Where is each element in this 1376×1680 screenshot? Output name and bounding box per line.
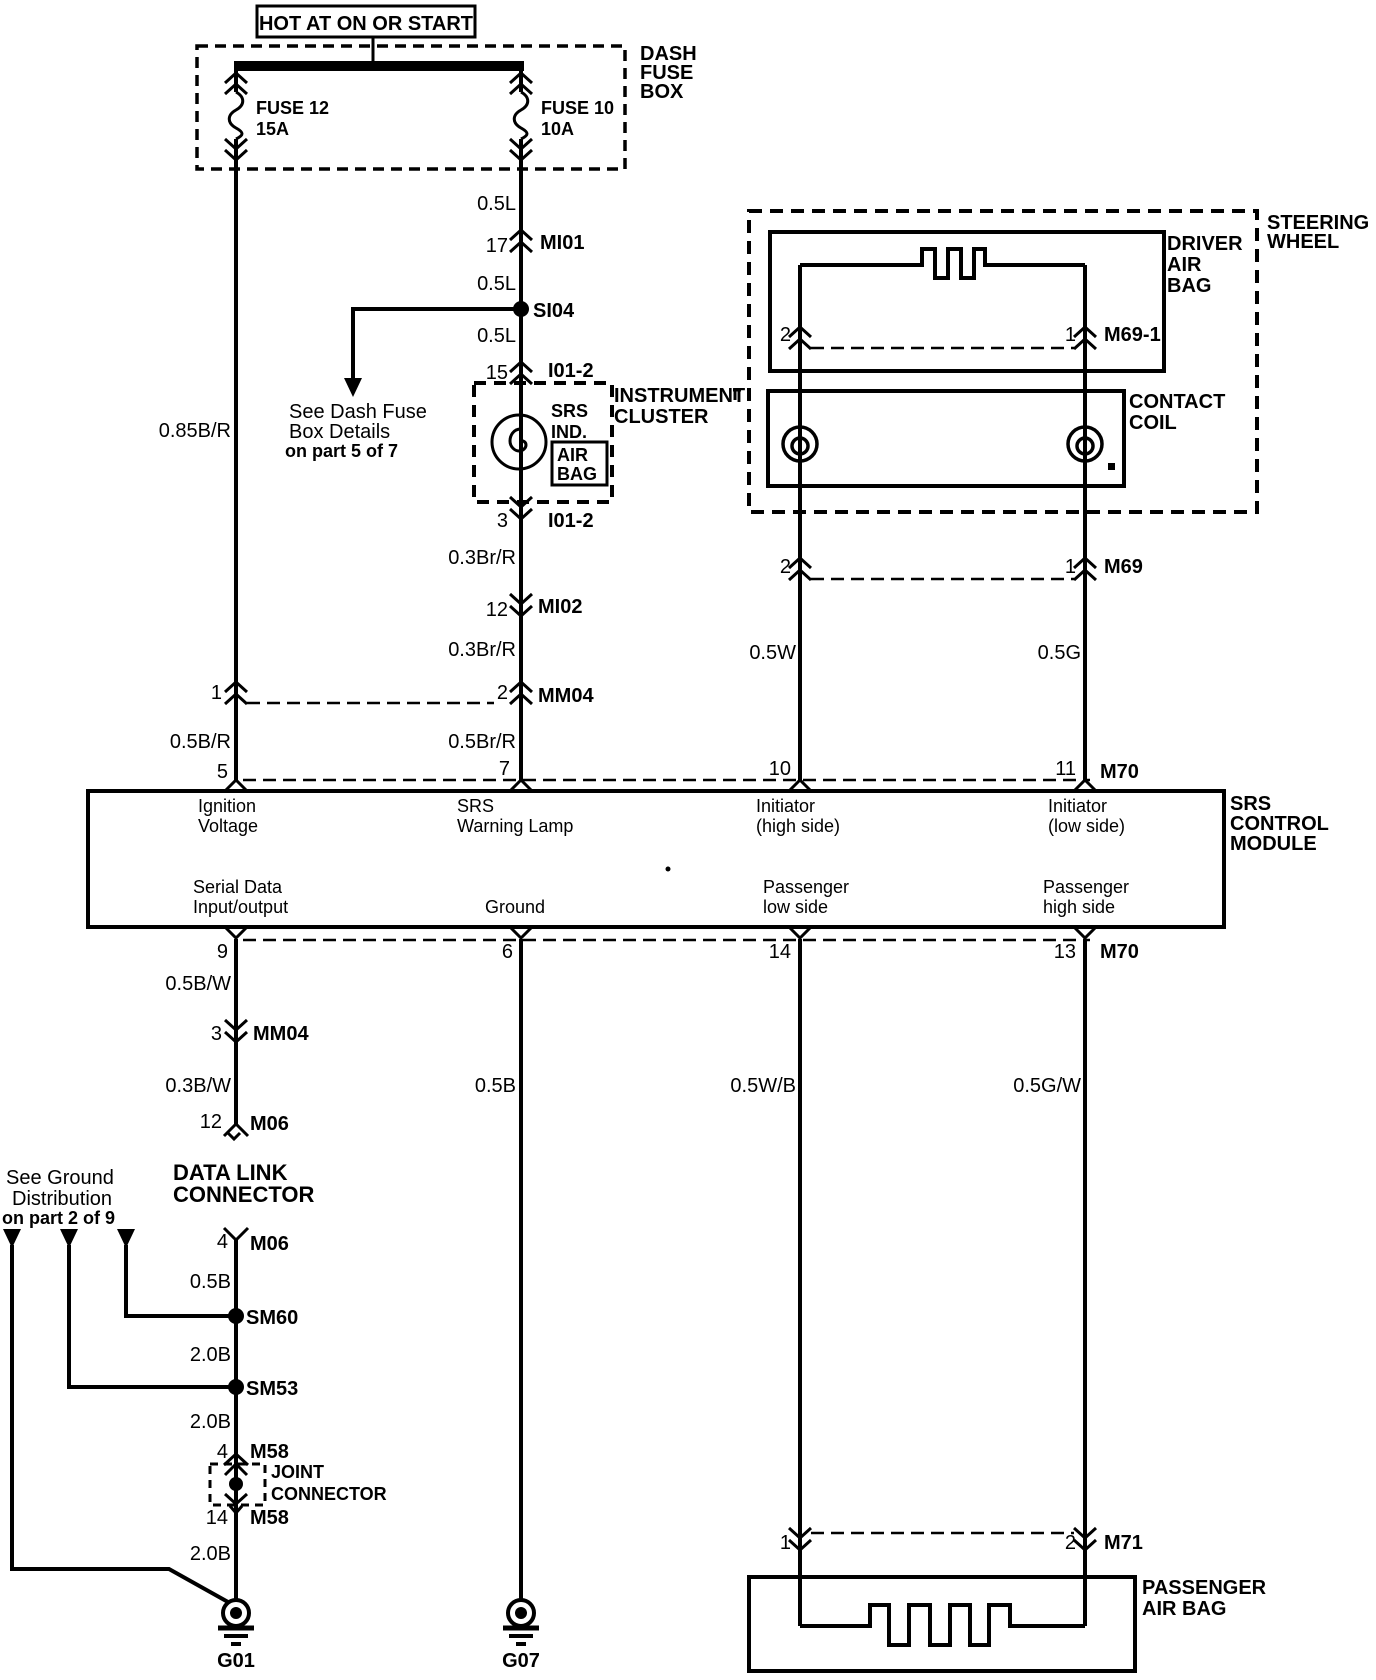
label DRIVER AIR BAG [1167, 233, 1243, 297]
svg-text:14: 14 [769, 941, 791, 963]
junction SM53 [228, 1378, 298, 1400]
wire W3 initiator high side vertical [798, 265, 802, 781]
module pin chevron bottom 6 [510, 927, 532, 938]
svg-text:See Ground: See Ground [6, 1167, 114, 1189]
dash fuse box (dashed) [197, 46, 625, 169]
fuse FUSE 12 15A [225, 73, 247, 160]
connector MM04 pin 3 [211, 1020, 310, 1045]
dashed line above module [243, 779, 1090, 782]
svg-text:MI02: MI02 [538, 596, 582, 618]
svg-text:2.0B: 2.0B [190, 1543, 231, 1565]
svg-text:0.5W/B: 0.5W/B [730, 1075, 796, 1097]
connector I01-2 pin 15 [486, 360, 594, 384]
joint connector box (dashed) [210, 1464, 265, 1505]
module label Serial Data Input/output [193, 877, 288, 917]
junction SI04 [513, 300, 575, 322]
svg-text:0.5L: 0.5L [477, 193, 516, 215]
svg-text:CONNECTOR: CONNECTOR [271, 1484, 387, 1504]
connector M06 pin 4 (termination) [217, 1228, 289, 1255]
svg-text:low side: low side [763, 897, 828, 917]
arrowhead dash-fuse-note [344, 378, 362, 397]
svg-text:M69: M69 [1104, 556, 1143, 578]
artifact mark left of contact coil [733, 390, 741, 400]
svg-text:BOX: BOX [640, 81, 684, 103]
svg-text:0.3B/W: 0.3B/W [165, 1075, 231, 1097]
svg-text:7: 7 [499, 758, 510, 780]
svg-text:BAG: BAG [1167, 275, 1211, 297]
label STEERING WHEEL [1267, 212, 1369, 253]
passenger air bag box [749, 1577, 1135, 1671]
svg-text:DRIVER: DRIVER [1167, 233, 1243, 255]
svg-text:M69-1: M69-1 [1104, 324, 1161, 346]
svg-text:M06: M06 [250, 1113, 289, 1135]
svg-text:2.0B: 2.0B [190, 1344, 231, 1366]
svg-text:0.5L: 0.5L [477, 273, 516, 295]
driver air bag box [770, 232, 1164, 371]
svg-text:MM04: MM04 [253, 1023, 309, 1045]
svg-text:12: 12 [486, 599, 508, 621]
label JOINT CONNECTOR [271, 1462, 387, 1504]
label INSTRUMENT CLUSTER [614, 385, 745, 428]
svg-text:(high side): (high side) [756, 816, 840, 836]
svg-text:M58: M58 [250, 1441, 289, 1463]
svg-text:2: 2 [780, 556, 791, 578]
module pin chevron bottom 14 [789, 927, 811, 938]
wire W4 passenger high side segment [1083, 939, 1087, 1626]
ground feed arrow 3 [117, 1229, 135, 1248]
svg-text:HOT AT ON OR START: HOT AT ON OR START [259, 13, 473, 35]
svg-text:17: 17 [486, 235, 508, 257]
module label Ignition Voltage [198, 796, 258, 836]
module label Initiator (low side) [1048, 796, 1125, 836]
svg-text:I01-2: I01-2 [548, 510, 594, 532]
label SRS CONTROL MODULE [1230, 793, 1329, 855]
svg-text:6: 6 [502, 941, 513, 963]
ground feed arrow 1 [3, 1229, 21, 1248]
svg-text:CLUSTER: CLUSTER [614, 406, 709, 428]
svg-text:Ignition: Ignition [198, 796, 256, 816]
svg-text:5: 5 [217, 761, 228, 783]
label PASSENGER AIR BAG [1142, 1577, 1267, 1620]
svg-text:on part 5 of 7: on part 5 of 7 [285, 441, 398, 461]
svg-text:See Dash Fuse: See Dash Fuse [289, 401, 427, 423]
svg-text:SRS: SRS [551, 401, 588, 421]
module label Initiator (high side) [756, 796, 840, 836]
svg-text:AIR BAG: AIR BAG [1142, 1598, 1226, 1620]
SRS control module box [88, 791, 1224, 927]
connector M69 pin 2 [780, 556, 811, 580]
wire W4 initiator low side vertical [1083, 265, 1087, 781]
artifact dot contact coil [1108, 463, 1115, 470]
connector MM04 pin 2 [497, 682, 595, 707]
note See Ground Distribution [2, 1167, 115, 1228]
svg-text:Initiator: Initiator [756, 796, 815, 816]
svg-text:Voltage: Voltage [198, 816, 258, 836]
svg-text:INSTRUMENT: INSTRUMENT [614, 385, 745, 407]
wire W1 lower serial-data segment [234, 939, 238, 1125]
svg-text:0.5Br/R: 0.5Br/R [448, 731, 516, 753]
svg-text:0.5L: 0.5L [477, 325, 516, 347]
svg-text:JOINT: JOINT [271, 1462, 324, 1482]
module label SRS Warning Lamp [457, 796, 573, 836]
svg-text:SRS: SRS [1230, 793, 1271, 815]
label DATA LINK CONNECTOR [173, 1160, 314, 1207]
svg-text:MI01: MI01 [540, 232, 584, 254]
wire W2 SRS warning lamp vertical [519, 71, 523, 92]
connector M71 pin 2 [1065, 1528, 1143, 1554]
svg-text:MODULE: MODULE [1230, 833, 1317, 855]
svg-text:4: 4 [217, 1231, 228, 1253]
ground feed wire 2 [69, 1245, 236, 1387]
squib resistor driver air bag [800, 249, 1085, 278]
svg-text:FUSE 12: FUSE 12 [256, 98, 329, 118]
svg-text:CONNECTOR: CONNECTOR [173, 1182, 314, 1207]
svg-text:Input/output: Input/output [193, 897, 288, 917]
svg-text:Distribution: Distribution [12, 1188, 112, 1210]
svg-text:15A: 15A [256, 119, 289, 139]
junction SM60 [228, 1307, 298, 1329]
svg-text:G01: G01 [217, 1650, 255, 1672]
label box AIR BAG [552, 442, 607, 485]
module label Passenger low side [763, 877, 849, 917]
svg-text:M71: M71 [1104, 1532, 1143, 1554]
module pin chevron top 5 [225, 780, 247, 791]
svg-text:high side: high side [1043, 897, 1115, 917]
svg-text:Warning Lamp: Warning Lamp [457, 816, 573, 836]
svg-text:PASSENGER: PASSENGER [1142, 1577, 1267, 1599]
svg-text:FUSE 10: FUSE 10 [541, 98, 614, 118]
svg-text:0.5B/W: 0.5B/W [165, 973, 231, 995]
svg-text:9: 9 [217, 941, 228, 963]
svg-text:Passenger: Passenger [1043, 877, 1129, 897]
wire from SI04 to dash-fuse-note arrow [353, 309, 521, 380]
contact coil box [768, 391, 1124, 486]
connector M58 pin 14 [206, 1507, 289, 1529]
ground feed wire 3 [126, 1245, 236, 1316]
svg-text:15: 15 [486, 362, 508, 384]
label DASH FUSE BOX [640, 43, 697, 103]
label CONTACT COIL [1129, 391, 1225, 434]
svg-text:0.85B/R: 0.85B/R [159, 420, 231, 442]
svg-text:M06: M06 [250, 1233, 289, 1255]
connector MI02 pin 12 [486, 594, 583, 621]
dashed link M71 [811, 1532, 1074, 1535]
bus bar [234, 61, 524, 71]
wire stub from HOT tag to bus bar [372, 37, 375, 62]
svg-text:0.5B: 0.5B [475, 1075, 516, 1097]
module pin chevron top 10 [789, 780, 811, 791]
connector M69 pin 1 [1065, 556, 1143, 580]
svg-text:M70: M70 [1100, 761, 1139, 783]
svg-text:BAG: BAG [557, 464, 597, 484]
dashed link M69-1 [811, 347, 1074, 350]
module pin chevron bottom 9 [225, 927, 247, 938]
value label FUSE 10 10A [541, 98, 614, 139]
module label Passenger high side [1043, 877, 1129, 917]
svg-text:2: 2 [497, 682, 508, 704]
svg-text:Initiator: Initiator [1048, 796, 1107, 816]
svg-text:SI04: SI04 [533, 300, 575, 322]
dashed link connector1 to MM04 [247, 702, 494, 705]
svg-text:IND.: IND. [551, 422, 587, 442]
note See Dash Fuse Box Details [285, 401, 427, 461]
ground feed wire 1 [12, 1245, 228, 1602]
svg-text:0.5B/R: 0.5B/R [170, 731, 231, 753]
svg-text:SRS: SRS [457, 796, 494, 816]
svg-text:COIL: COIL [1129, 412, 1177, 434]
svg-text:1: 1 [1065, 556, 1076, 578]
module pin chevron top 11 [1074, 780, 1096, 791]
svg-text:4: 4 [217, 1441, 228, 1463]
ground feed arrow 2 [60, 1229, 78, 1248]
svg-text:13: 13 [1054, 941, 1076, 963]
artifact dot module [666, 867, 671, 872]
svg-text:Box Details: Box Details [289, 421, 390, 443]
svg-text:2: 2 [1065, 1532, 1076, 1554]
svg-text:0.5G/W: 0.5G/W [1013, 1075, 1081, 1097]
dashed line below module [243, 939, 1090, 942]
svg-text:10: 10 [769, 758, 791, 780]
module pin chevron top 7 [510, 780, 532, 791]
svg-text:on part 2 of 9: on part 2 of 9 [2, 1208, 115, 1228]
joint connector chevron bottom [225, 1494, 247, 1513]
svg-text:M70: M70 [1100, 941, 1139, 963]
svg-text:0.5B: 0.5B [190, 1271, 231, 1293]
svg-text:1: 1 [780, 1532, 791, 1554]
lamp SRS IND. [492, 401, 588, 469]
wire W3 passenger low side segment [798, 939, 802, 1626]
svg-text:AIR: AIR [557, 445, 588, 465]
svg-text:SM53: SM53 [246, 1378, 298, 1400]
squib resistor passenger air bag [800, 1605, 1085, 1645]
svg-text:I01-2: I01-2 [548, 360, 594, 382]
fuse FUSE 10 10A [510, 73, 532, 160]
svg-text:CONTACT: CONTACT [1129, 391, 1225, 413]
svg-text:G07: G07 [502, 1650, 540, 1672]
svg-text:0.3Br/R: 0.3Br/R [448, 547, 516, 569]
power tag HOT AT ON OR START [257, 6, 475, 37]
connector M69-1 pin 1 [1065, 324, 1161, 349]
dashed link M69 [811, 578, 1074, 581]
connector M69-1 pin 2 [780, 324, 811, 349]
value label FUSE 12 15A [256, 98, 329, 139]
svg-text:12: 12 [200, 1111, 222, 1133]
joint connector chevron top [225, 1464, 247, 1475]
svg-text:Ground: Ground [485, 897, 545, 917]
connector M58 pin 4 (termination) [217, 1441, 289, 1465]
svg-text:M58: M58 [250, 1507, 289, 1529]
joint connector junction dot [229, 1477, 243, 1491]
instrument cluster box (dashed) [474, 383, 612, 502]
svg-text:AIR: AIR [1167, 254, 1202, 276]
svg-text:0.5G: 0.5G [1038, 642, 1081, 664]
svg-text:0.3Br/R: 0.3Br/R [448, 639, 516, 661]
svg-text:3: 3 [211, 1023, 222, 1045]
svg-text:CONTROL: CONTROL [1230, 813, 1329, 835]
wire W1 ignition voltage vertical [234, 71, 238, 92]
svg-text:SM60: SM60 [246, 1307, 298, 1329]
ground G01 [217, 1600, 255, 1672]
steering wheel box (dashed) [749, 211, 1257, 512]
connector MI01 pin 17 [486, 230, 585, 257]
svg-text:MM04: MM04 [538, 685, 594, 707]
svg-text:Serial Data: Serial Data [193, 877, 283, 897]
svg-text:0.5W: 0.5W [749, 642, 796, 664]
connector M06 pin 12 (termination) [200, 1111, 289, 1139]
svg-text:3: 3 [497, 510, 508, 532]
svg-text:2.0B: 2.0B [190, 1411, 231, 1433]
wire W1 data-link to ground segment [234, 1239, 238, 1600]
svg-text:1: 1 [1065, 324, 1076, 346]
svg-text:(low side): (low side) [1048, 816, 1125, 836]
svg-text:WHEEL: WHEEL [1267, 231, 1339, 253]
coil spiral left [783, 427, 817, 461]
ground G07 [502, 1600, 540, 1672]
svg-text:10A: 10A [541, 119, 574, 139]
connector I01-2 pin 3 [497, 497, 594, 532]
wire W2 ground segment to G07 [519, 939, 523, 1600]
svg-text:Passenger: Passenger [763, 877, 849, 897]
svg-text:11: 11 [1055, 758, 1076, 780]
svg-text:1: 1 [211, 682, 222, 704]
coil spiral right [1068, 427, 1102, 461]
module pin chevron bottom 13 [1074, 927, 1096, 938]
svg-text:2: 2 [780, 324, 791, 346]
connector pin 1 (W1) [211, 682, 247, 704]
connector M71 pin 1 [780, 1528, 811, 1554]
svg-text:14: 14 [206, 1507, 228, 1529]
